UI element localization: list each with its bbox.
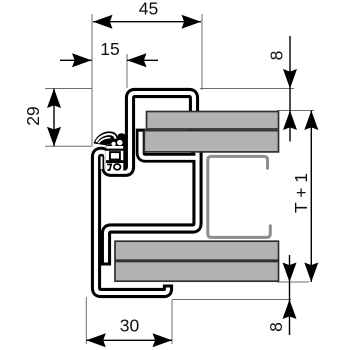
svg-text:T + 1: T + 1 [291,173,311,213]
svg-text:30: 30 [120,316,140,336]
svg-text:15: 15 [100,39,119,59]
svg-text:8: 8 [267,51,287,61]
svg-text:8: 8 [266,322,286,332]
svg-text:45: 45 [139,0,158,19]
svg-text:29: 29 [23,106,43,125]
